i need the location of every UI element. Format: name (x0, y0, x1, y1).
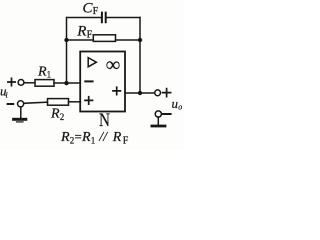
svg-text:R: R (81, 130, 91, 145)
terminal circle: output - (155, 111, 161, 117)
svg-text:F: F (87, 29, 93, 40)
terminal circle: input + (18, 80, 24, 86)
op-amp gain triangle (88, 58, 96, 67)
junction: RF/left vertical (64, 38, 68, 42)
svg-text:N: N (99, 109, 110, 130)
input - sign (bottom left terminal) (8, 103, 14, 105)
output - sign (163, 113, 171, 115)
svg-text:R: R (37, 64, 47, 79)
terminal circle: output + (155, 90, 161, 96)
input + sign (top left terminal) (8, 78, 15, 85)
svg-text://: // (98, 130, 108, 145)
svg-text:1: 1 (47, 70, 52, 80)
wire: RF branch left (67, 39, 94, 41)
wire: left feedback vertical (66, 18, 68, 84)
svg-text:R: R (112, 130, 122, 145)
terminal circle: input - (18, 101, 24, 107)
wire: right feedback vertical (139, 18, 141, 94)
junction: RF/right vertical (138, 38, 142, 42)
svg-text:R: R (60, 130, 70, 145)
svg-text:R: R (76, 24, 86, 40)
formula R2 = R1 // RF (60, 129, 129, 147)
wire: opamp output (125, 92, 155, 94)
svg-text:1: 1 (91, 136, 96, 146)
svg-text:i: i (6, 91, 8, 100)
wire: CF top path left segment (67, 17, 101, 19)
op-amp U1 body (80, 52, 125, 112)
wire: R2 to noninverting input (69, 101, 81, 103)
junction: output node (138, 91, 142, 95)
wire: R1 to inverting input (54, 82, 80, 84)
wire: + terminal to R1 (24, 82, 35, 84)
ground (right): bars (152, 125, 165, 128)
svg-text:∞: ∞ (106, 54, 120, 76)
svg-text:o: o (178, 103, 182, 112)
wire: - terminal to R2 (24, 102, 48, 103)
svg-text:F: F (93, 6, 99, 17)
resistor R1 body (35, 80, 54, 87)
output + sign (163, 89, 171, 97)
svg-text:2: 2 (60, 112, 65, 122)
resistor RF body (93, 35, 115, 42)
ground (right): stem (157, 117, 159, 125)
wire: CF top path right segment (106, 17, 140, 19)
capacitor CF plates (102, 13, 106, 23)
op-amp inverting input minus sign (85, 80, 92, 82)
junction: inverting input node (64, 81, 68, 85)
ground (left): bars (14, 118, 26, 121)
op-amp noninverting input plus sign (85, 97, 93, 104)
wire: RF branch right (116, 39, 141, 41)
resistor R2 body (48, 99, 69, 106)
svg-text:=: = (75, 129, 82, 144)
svg-text:R: R (50, 106, 60, 121)
svg-text:F: F (123, 136, 129, 147)
op-amp output plus sign (113, 87, 120, 94)
ground (left): stem (20, 107, 22, 118)
